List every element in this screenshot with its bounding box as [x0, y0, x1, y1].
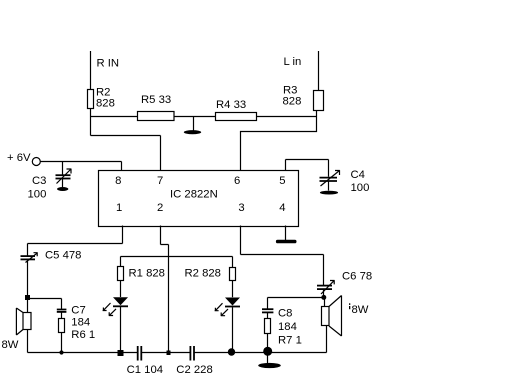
svg-text:R6 1: R6 1: [71, 329, 95, 341]
svg-text:184: 184: [71, 317, 90, 329]
svg-text:C2 228: C2 228: [176, 364, 212, 376]
svg-text:C5 478: C5 478: [45, 250, 81, 262]
svg-text:R1 828: R1 828: [129, 268, 165, 280]
svg-text:828: 828: [283, 96, 302, 108]
svg-text:2: 2: [157, 202, 163, 214]
svg-text:7: 7: [157, 175, 163, 187]
svg-text:8W: 8W: [2, 339, 19, 351]
svg-text:C7: C7: [71, 305, 85, 317]
svg-text:C4: C4: [351, 169, 365, 181]
svg-text:C1 104: C1 104: [127, 364, 163, 376]
svg-text:R IN: R IN: [97, 58, 120, 70]
svg-text:8: 8: [115, 175, 121, 187]
svg-text:100: 100: [351, 182, 370, 194]
svg-text:R7 1: R7 1: [278, 335, 302, 347]
svg-text:R5 33: R5 33: [141, 94, 171, 106]
svg-text:C8: C8: [278, 308, 292, 320]
svg-text:L in: L in: [284, 56, 302, 68]
svg-text:R4 33: R4 33: [216, 99, 246, 111]
svg-text:5: 5: [279, 175, 285, 187]
svg-text:1: 1: [116, 202, 122, 214]
svg-text:3: 3: [238, 202, 244, 214]
svg-text:4: 4: [279, 202, 285, 214]
svg-text:R2 828: R2 828: [185, 268, 221, 280]
svg-text:C3: C3: [32, 175, 46, 187]
svg-text:184: 184: [278, 321, 297, 333]
svg-text:+ 6V: + 6V: [7, 152, 31, 164]
svg-text:100: 100: [28, 189, 47, 201]
svg-text:6: 6: [234, 175, 240, 187]
svg-text:IC 2822N: IC 2822N: [170, 188, 218, 200]
svg-text:C6 78: C6 78: [342, 271, 372, 283]
svg-text:828: 828: [96, 98, 115, 110]
svg-text:8W: 8W: [352, 304, 369, 316]
